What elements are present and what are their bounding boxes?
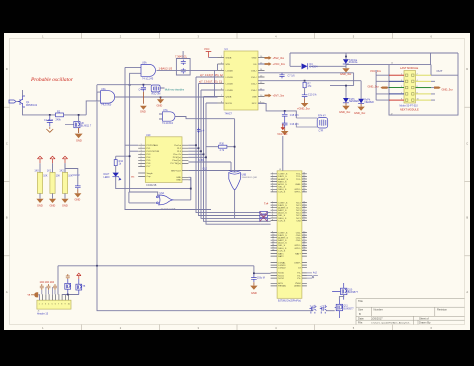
transistor Q5 header — [65, 279, 71, 295]
wire bus drop 5 — [206, 103, 260, 224]
svg-text:B: B — [6, 216, 8, 220]
capacitor bank above header — [40, 284, 57, 290]
transistor Q6 header — [76, 279, 86, 295]
resistor R7 47k — [303, 82, 312, 88]
svg-text:GND: GND — [37, 203, 43, 207]
capacitor C1 — [44, 116, 54, 126]
wire left drop to header — [57, 266, 59, 295]
svg-text:CLK_S: CLK_S — [278, 220, 285, 222]
svg-text:Single: Single — [147, 173, 154, 175]
wire crystal rail — [97, 85, 165, 88]
wire bus vertical A — [125, 85, 138, 145]
crystal Y1 R1C-3M — [151, 85, 160, 96]
power VCC bank 2 — [50, 156, 55, 163]
wire bus drop 1 — [196, 77, 260, 213]
wire J3 right YS taps — [307, 273, 318, 278]
svg-text:4x2: 4x2 — [313, 272, 318, 275]
wire bus vertical B — [130, 73, 141, 85]
svg-text:ACS: ACS — [278, 282, 283, 285]
svg-text:2: 2 — [42, 304, 43, 306]
ground — [250, 282, 257, 290]
wire bus drop 3 — [201, 90, 260, 218]
svg-text:GND_3xx: GND_3xx — [354, 111, 366, 115]
svg-text:GND: GND — [251, 291, 257, 295]
svg-text:Date:: Date: — [358, 317, 364, 321]
wire U6B output — [234, 190, 236, 218]
and-gate U3A 74LS00 — [101, 88, 115, 107]
svg-text:GND: GND — [50, 203, 56, 207]
resistor R21 bank — [47, 170, 60, 194]
power VCC above J3 — [277, 124, 288, 171]
svg-text:GND_3xx: GND_3xx — [339, 110, 351, 114]
svg-text:C15 27n: C15 27n — [290, 114, 300, 117]
svg-text:Title: Title — [358, 299, 363, 303]
diode D6 RxPh — [358, 99, 374, 104]
power +VCC port — [265, 62, 286, 66]
wire LED bottom — [116, 177, 191, 189]
junction node — [304, 80, 306, 82]
svg-text:7: 7 — [58, 304, 59, 306]
wire R2 to Q2 node — [64, 115, 87, 121]
svg-text:R1C-3M: R1C-3M — [152, 93, 161, 96]
wire header mosfet link — [62, 294, 79, 296]
svg-text:GND: GND — [140, 110, 146, 114]
svg-text:BJT(M) DIn25PinP(s): BJT(M) DIn25PinP(s) — [278, 300, 301, 303]
ground — [157, 97, 164, 103]
junction node — [160, 96, 162, 98]
svg-text:AGND: AGND — [294, 285, 301, 288]
capacitor C10 — [302, 93, 318, 98]
svg-text:GND: GND — [76, 139, 82, 143]
wire D1 to module top — [346, 53, 458, 65]
port arrow header left — [28, 292, 39, 297]
svg-text:U6A: U6A — [160, 192, 165, 195]
wire U7A input stubs — [159, 114, 163, 119]
wire U10 right pins to bus — [188, 145, 206, 157]
transistor Q2 BLN0117 — [74, 122, 92, 128]
svg-text:File:: File: — [358, 321, 363, 325]
svg-text:+C?: +C? — [320, 305, 325, 308]
resistor R2 240k — [56, 110, 64, 121]
svg-text:Drawn By:: Drawn By: — [419, 321, 431, 325]
svg-text:3: 3 — [45, 304, 46, 306]
svg-text:C: C — [6, 141, 8, 145]
svg-text:BLN011 7: BLN011 7 — [81, 125, 92, 128]
svg-text:103u M: 103u M — [257, 277, 265, 280]
wire module left stubs — [376, 70, 389, 100]
junction node — [190, 188, 192, 190]
wire bus drop 4 — [204, 97, 261, 222]
transistor Q8 small — [310, 305, 317, 314]
LED D10 blue — [104, 173, 121, 180]
svg-text:D: D — [466, 67, 468, 71]
ground — [140, 92, 147, 110]
svg-text:C10 1%: C10 1% — [308, 94, 317, 97]
svg-text:ACLK_S: ACLK_S — [278, 183, 287, 186]
diode D1 TVS — [343, 59, 358, 64]
svg-text:GND_3xx: GND_3xx — [368, 84, 380, 88]
wire stub top right corner — [457, 52, 459, 54]
capacitor C11 10uF — [73, 174, 81, 189]
resistor R20 bank — [34, 170, 47, 194]
wire to gate U3A — [86, 101, 100, 115]
svg-text:P1/PSTALE: P1/PSTALE — [147, 144, 159, 147]
port input left — [9, 100, 16, 103]
svg-text:GND: GND — [252, 57, 257, 59]
svg-text:104 104 104: 104 104 104 — [40, 280, 55, 284]
svg-text:+5V2_3xx: +5V2_3xx — [273, 56, 285, 60]
wire bus drop 2 — [199, 84, 261, 216]
wire SRVTCLK out — [188, 170, 251, 172]
svg-text:10: 10 — [68, 304, 70, 306]
svg-text:74LS 000: 74LS 000 — [101, 104, 112, 107]
svg-text:+5V?_3xx: +5V?_3xx — [273, 94, 285, 98]
ground — [61, 199, 68, 203]
svg-text:CS6-/: CS6-/ — [251, 70, 257, 72]
svg-text:LED0: LED0 — [104, 176, 111, 179]
svg-text:GS0B: GS0B — [226, 57, 232, 59]
svg-text:VCC 3xx: VCC 3xx — [277, 132, 288, 136]
svg-text:CS2-/: CS2-/ — [251, 83, 257, 85]
svg-text:BUK9577: BUK9577 — [343, 307, 354, 310]
power VCC bank 1 — [37, 156, 42, 163]
wire U4 row net a — [196, 76, 218, 78]
svg-text:DS: DS — [253, 64, 257, 66]
svg-text:CLK: CLK — [203, 168, 208, 171]
svg-text:PL2/CWTOR: PL2/CWTOR — [147, 151, 160, 153]
svg-text:GND: GND — [62, 203, 68, 207]
resistor R12 — [114, 160, 123, 166]
svg-text:GND: GND — [75, 198, 81, 202]
svg-text:NCCB: NCCB — [226, 103, 233, 105]
svg-text:+GND_3xx: +GND_3xx — [297, 107, 310, 111]
wire bank — [52, 163, 54, 198]
wire U4 rows cd — [201, 90, 218, 103]
svg-text:D: D — [6, 67, 8, 71]
svg-text:U10: U10 — [146, 134, 151, 137]
junction node — [96, 265, 98, 267]
capacitor C20 103u — [251, 274, 265, 282]
ground — [342, 103, 349, 110]
IC U10 CD4021B — [145, 134, 182, 187]
junction node — [234, 146, 236, 148]
svg-text:4: 4 — [48, 304, 49, 306]
ground — [342, 68, 349, 72]
svg-text:CS0-: CS0- — [296, 240, 301, 242]
svg-text:s(7, 13,6)(7, 15), 12: s(7, 13,6)(7, 15), 12 — [199, 80, 222, 84]
svg-text:OUT: OUT — [437, 69, 443, 73]
wire R to LED — [115, 166, 117, 173]
power VCC bank 3 — [62, 156, 67, 163]
svg-text:NEXT MODULE: NEXT MODULE — [400, 108, 419, 112]
ground — [46, 127, 53, 133]
svg-text:s(7, 13,6)(7, 15), 12: s(7, 13,6)(7, 15), 12 — [200, 73, 223, 77]
svg-text:4.7k: 4.7k — [220, 149, 225, 152]
svg-text:C16 27n: C16 27n — [290, 123, 300, 126]
wire bus vertical A lower — [124, 145, 126, 209]
and-gate U5A 74HC245 — [141, 62, 156, 81]
wire module outer box — [389, 53, 458, 115]
svg-text:BUK9577: BUK9577 — [348, 291, 359, 294]
svg-text:9: 9 — [65, 304, 66, 306]
junction node — [284, 110, 286, 112]
power cap above Q5 — [66, 274, 70, 279]
wire CLK net — [188, 162, 231, 172]
svg-text:74-HC/XCO Q0R: 74-HC/XCO Q0R — [242, 177, 258, 179]
xor-gate U6B — [229, 170, 258, 190]
svg-text:GPIO-: GPIO- — [294, 192, 300, 194]
wire row3 long — [258, 72, 354, 74]
wire bus vertical B lower — [129, 85, 138, 192]
resistor R30 4.7k — [219, 143, 227, 152]
svg-text:2/26/2017: 2/26/2017 — [371, 317, 383, 321]
wire oscillator drop to bottom bus — [96, 102, 98, 266]
wire U10 gnd pins — [188, 177, 190, 188]
wire U4 row net b — [199, 83, 218, 85]
svg-text:TxD: TxD — [310, 305, 315, 308]
IC U4 pins — [218, 58, 265, 104]
svg-text:LGNAL: LGNAL — [278, 261, 286, 264]
svg-text:R30: R30 — [220, 143, 225, 146]
svg-text:BAT1: BAT1 — [278, 252, 284, 255]
svg-text:va:: va: — [131, 175, 135, 178]
svg-text:RxD/Jta: RxD/Jta — [349, 61, 358, 64]
title block — [356, 299, 465, 325]
svg-text:8: 8 — [61, 304, 62, 306]
wire U4 pin GND row — [258, 63, 265, 65]
svg-text:74-1C,245: 74-1C,245 — [142, 77, 154, 80]
wire D1 to gnd — [345, 64, 347, 68]
wire top rail to D1 — [345, 53, 347, 59]
svg-text:TX1-: TX1- — [296, 179, 301, 181]
wire bottom loop — [97, 266, 313, 311]
svg-text:MPMF102: MPMF102 — [26, 104, 38, 107]
junction node — [78, 114, 80, 116]
wire LED top — [116, 156, 130, 159]
junction node — [345, 85, 347, 87]
resistor network RN1 — [260, 211, 268, 222]
svg-text:/-CS3B: /-CS3B — [226, 90, 234, 92]
capacitor C4 — [139, 85, 147, 92]
svg-text:GND_3xx: GND_3xx — [442, 88, 454, 92]
svg-text:/-CS1B: /-CS1B — [226, 77, 234, 79]
border zone ticks and numbers — [4, 33, 470, 330]
svg-text:GPIO-: GPIO- — [294, 248, 300, 250]
ground — [36, 199, 43, 203]
svg-text:USB: USB — [252, 96, 257, 98]
resistor R22 bank — [59, 170, 72, 194]
svg-text:PinOut: PinOut — [174, 144, 181, 147]
wire module right out — [431, 75, 458, 100]
svg-text:C10 M: C10 M — [73, 174, 80, 177]
wire mid verticals right — [330, 73, 361, 99]
svg-text:PL7 N(Qn): PL7 N(Qn) — [171, 163, 182, 165]
svg-text:GND: GND — [157, 104, 163, 108]
svg-text:C.3K: C.3K — [199, 159, 205, 162]
svg-text:VCC_3xx: VCC_3xx — [370, 69, 382, 73]
connector J1 Header15 — [37, 300, 71, 315]
svg-text:Molex 53-P7-510: Molex 53-P7-510 — [400, 104, 419, 107]
power +5V2 port — [265, 56, 285, 60]
svg-text:74HC?: 74HC? — [225, 113, 233, 116]
wire U5A output — [157, 69, 177, 71]
svg-text:1K1: 1K1 — [47, 170, 52, 173]
resonator XR1 — [317, 115, 328, 133]
wire L to cap stack — [258, 103, 296, 118]
svg-text:BAT2: BAT2 — [278, 255, 284, 258]
svg-text:7.3643-CL: 7.3643-CL — [175, 55, 188, 59]
svg-text:1K2: 1K2 — [59, 170, 64, 173]
svg-text:FAST_S: FAST_S — [278, 180, 287, 183]
wire U5A out to U4 — [176, 64, 218, 97]
svg-text:D4OD4: D4OD4 — [310, 66, 319, 69]
svg-text:GND: GND — [176, 180, 181, 182]
svg-text:CD4021B: CD4021B — [146, 184, 157, 187]
diode D4 — [302, 63, 319, 69]
wire R7 to cap — [304, 88, 306, 93]
svg-text:YS-: YS- — [297, 278, 301, 280]
wire U3A top input — [97, 92, 101, 101]
or-gate U6A — [157, 192, 176, 210]
power +5V port row6 — [265, 94, 285, 98]
wire row4 long — [258, 80, 361, 82]
svg-text:C7 1/6: C7 1/6 — [288, 75, 296, 78]
svg-text:U3A: U3A — [101, 88, 106, 91]
wire Q1 drain stub — [22, 90, 24, 96]
capacitor C15 27n — [282, 111, 300, 120]
wire long horizontal mid — [58, 265, 254, 267]
capacitor C16 27n — [282, 120, 300, 129]
svg-text:ACLK_S: ACLK_S — [278, 212, 287, 215]
junction node — [129, 84, 131, 86]
junction node — [143, 84, 145, 86]
wire VCC to U4 pin1 — [209, 57, 218, 59]
svg-text:U7A: U7A — [163, 109, 168, 112]
svg-text:A: A — [6, 290, 8, 294]
svg-text:Revision: Revision — [437, 308, 448, 312]
svg-text:Header 15: Header 15 — [37, 313, 49, 316]
svg-text:GND_3xx: GND_3xx — [340, 72, 352, 76]
svg-text:Multi-sec-triandles: Multi-sec-triandles — [165, 88, 185, 91]
wire to Q11 gate — [326, 310, 335, 312]
wire U7A output to U6B — [175, 117, 235, 172]
junction node — [129, 155, 131, 157]
connector J2 pins — [383, 74, 431, 102]
ground — [357, 104, 364, 111]
wire bank — [64, 163, 66, 198]
IC U10 pins — [138, 145, 188, 166]
wire gate box left — [129, 192, 158, 203]
wire U3A output — [115, 96, 218, 98]
wire U6A output up — [174, 177, 191, 200]
svg-text:FAST_S: FAST_S — [278, 239, 287, 242]
svg-text:C?R: C?R — [319, 129, 324, 132]
connector J3 pin labels — [272, 173, 306, 288]
wire caps to pins — [42, 287, 55, 294]
svg-text:10K: 10K — [43, 175, 48, 178]
svg-text:1: 1 — [39, 304, 40, 306]
svg-text:1-BAU2-1/3: 1-BAU2-1/3 — [159, 66, 173, 70]
svg-text:6: 6 — [55, 304, 56, 306]
junction node — [67, 294, 69, 296]
svg-text:Sheet of: Sheet of — [419, 317, 429, 321]
wire — [17, 101, 21, 103]
svg-text:U6B: U6B — [242, 173, 247, 176]
svg-text:ACLK_S: ACLK_S — [278, 242, 287, 245]
svg-text:R?4 4?: R?4 4? — [318, 115, 326, 118]
and-gate U7A — [162, 109, 175, 125]
wire bank — [39, 163, 41, 198]
svg-text:0SEL: 0SEL — [295, 184, 301, 186]
port arrow left GND_3xx — [368, 84, 388, 88]
svg-text:B: B — [466, 216, 468, 220]
wire U4 row6 stub — [258, 89, 265, 91]
wire U5A input upper — [125, 67, 141, 85]
svg-text:C4 0?7: C4 0?7 — [139, 89, 147, 92]
svg-text:CS6-/: CS6-/ — [251, 90, 257, 92]
wire J3 LGND tap — [254, 266, 271, 274]
svg-text:1K0: 1K0 — [34, 170, 39, 173]
wire Q2 gate stub — [65, 124, 74, 126]
junction node — [345, 56, 347, 58]
svg-text:PL3(Qn): PL3(Qn) — [173, 157, 182, 159]
svg-text:/-CS2B: /-CS2B — [226, 83, 234, 85]
connector J3 DB25 body — [277, 169, 302, 303]
svg-text:CLK_S: CLK_S — [278, 250, 285, 252]
junction node — [253, 272, 255, 274]
wire bundle into J3 — [260, 213, 270, 225]
svg-text:B: B — [359, 312, 361, 316]
svg-text:Plus(Qn): Plus(Qn) — [172, 160, 181, 162]
ground — [49, 199, 56, 203]
port arrow right GND_3xx — [434, 87, 453, 92]
svg-text:Plus Ch: Plus Ch — [173, 154, 181, 156]
svg-text:74-1C3C4: 74-1C3C4 — [162, 122, 174, 125]
wire gate box bottom — [125, 209, 212, 211]
junction nodes bus — [195, 144, 197, 146]
svg-text:5: 5 — [52, 304, 53, 306]
IC U4 74HC — [224, 48, 258, 116]
wire cap pair loop — [176, 51, 190, 75]
transistor Q11 BUK9577 — [335, 300, 355, 319]
capacitor C6 — [181, 68, 186, 73]
svg-text:Tx4: Tx4 — [264, 202, 269, 206]
svg-text:SRVTCLK: SRVTCLK — [171, 170, 182, 172]
svg-text:SENDER: SENDER — [349, 100, 359, 103]
capacitor C7 — [279, 73, 295, 79]
transistor Q1 MPMF102 — [18, 96, 38, 107]
border frame inner line — [10, 39, 465, 325]
power VCC above U4 — [204, 47, 211, 58]
svg-text:+VCC_3xx: +VCC_3xx — [273, 62, 286, 66]
wire Q1 source to node — [23, 107, 56, 115]
ground — [301, 98, 309, 107]
svg-text:STB: STB — [226, 64, 231, 66]
svg-text:C: C — [466, 141, 468, 145]
transistor Q10 BUK9577 — [332, 283, 359, 300]
ground — [281, 128, 289, 135]
power VCC above Q6 — [77, 273, 81, 279]
svg-text:RES(N): RES(N) — [278, 286, 286, 288]
svg-text:C:\Users\..\parallelPortADC_Al: C:\Users\..\parallelPortADC_AlexeySch.. — [371, 322, 411, 325]
IC U10 pin labels — [141, 144, 182, 168]
svg-text:CS1-/: CS1-/ — [251, 77, 257, 79]
wire bank to cap C11 — [65, 163, 78, 184]
svg-text:Probable oscillator: Probable oscillator — [30, 77, 74, 83]
svg-text:QS0B: QS0B — [226, 96, 232, 98]
svg-text:C1 0677: C1 0677 — [44, 119, 54, 122]
svg-text:VIEWER: VIEWER — [364, 101, 374, 104]
